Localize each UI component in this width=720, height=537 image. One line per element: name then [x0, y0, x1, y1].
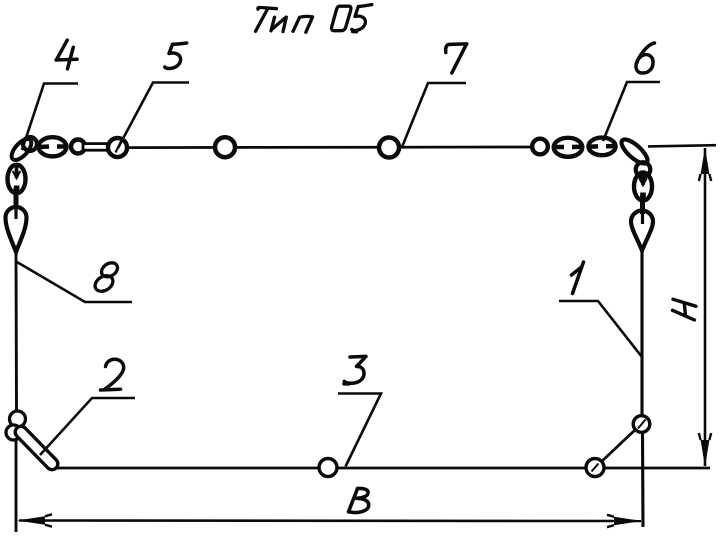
leader item 8: [17, 262, 132, 302]
label 3: [344, 356, 366, 384]
ring bottom-right upper item 1 end: [633, 416, 650, 433]
label 1: [572, 262, 584, 294]
chain stub inside right oval A: [556, 144, 582, 149]
wire diagonal bridle bottom-right: [600, 429, 636, 463]
dimension line H: [704, 148, 707, 466]
label 8: [92, 260, 120, 295]
label 2: [101, 359, 124, 390]
float circle item 7: [379, 138, 399, 158]
wire top headrope: [122, 146, 531, 149]
chain link horizontal oval top-left: [39, 137, 67, 156]
chain link horizontal oval right B item 6: [588, 138, 615, 156]
chain stub inside right vertical oval: [641, 173, 645, 185]
sinker teardrop right: [631, 211, 653, 251]
chain connector bar left: [14, 188, 19, 208]
wire top extension line for H: [648, 145, 716, 146]
label H rotated: [673, 299, 697, 320]
float circle left item on headrope: [215, 137, 235, 157]
leader item 5: [118, 83, 189, 149]
leader item 1: [559, 301, 642, 357]
dimension line B: [19, 519, 641, 522]
arrowhead H top: [701, 148, 710, 175]
swivel eye mark: [116, 142, 122, 153]
wire left extension line for B: [15, 427, 18, 532]
leader item 3: [338, 394, 381, 467]
ring bottom-right lower: [586, 459, 604, 477]
sinker teardrop left item 8 area: [6, 207, 27, 252]
chain stub inside right oval B: [590, 144, 616, 149]
swivel eye circle item 5: [108, 138, 127, 157]
leader item 4: [22, 84, 78, 151]
chain link vertical oval right: [634, 173, 652, 201]
title Тип 05: [256, 5, 372, 33]
toggle rod item 2: [13, 424, 60, 472]
chain stub bottom blob right vertical oval: [640, 193, 646, 200]
swivel bar U5: [83, 144, 112, 151]
chain stub arms right vertical oval: [639, 178, 646, 185]
ring bottom-left second: [6, 425, 21, 440]
label 4: [56, 40, 77, 69]
arrowhead B left: [17, 516, 45, 524]
chain stub top inside left vertical oval: [15, 165, 19, 178]
arrowhead B right barbs: [607, 515, 614, 527]
label B Cyrillic: [349, 488, 369, 512]
arrowhead H bottom: [701, 440, 710, 467]
chain stub bottom blob left vertical oval: [14, 186, 20, 194]
label 5: [165, 43, 187, 68]
arrowhead H top barbs: [699, 174, 711, 181]
wire right extension line for B: [641, 433, 645, 528]
wire bottom footrope: [52, 467, 710, 470]
ring mark lower: [592, 464, 599, 472]
leader item 7: [402, 83, 466, 147]
chain link vertical oval left: [8, 165, 26, 194]
wire left side rope: [15, 253, 18, 412]
chain stub right inside oval: [57, 144, 67, 149]
chain link tilted oval top-left: [8, 136, 35, 164]
leader item 2: [40, 398, 135, 455]
float ring item 3 on footrope: [319, 459, 337, 477]
chain link corner ring top-left: [23, 137, 37, 151]
chain connector bar right: [640, 195, 645, 214]
chain link tilted oval top-right corner: [618, 136, 651, 167]
chain stub arms left vertical oval: [13, 171, 20, 178]
arrowhead B left barbs: [45, 514, 52, 526]
arrowhead B right: [614, 517, 642, 525]
label 7: [446, 44, 467, 73]
wire right side rope: [640, 251, 643, 416]
leader item 6: [603, 82, 660, 141]
label 6: [636, 43, 655, 73]
chain link horizontal oval right A: [554, 138, 583, 157]
chain stub left inside oval: [40, 144, 49, 149]
swivel ring small: [71, 140, 85, 154]
arrowhead H bottom barbs: [699, 433, 711, 440]
sinker top notch left: [14, 207, 17, 219]
ring bottom-left on side rope: [10, 411, 26, 427]
chain link ring right start: [532, 139, 548, 155]
chain link ring right below corner: [636, 162, 651, 177]
sinker top notch right: [641, 212, 644, 224]
ring mark upper: [638, 420, 646, 429]
